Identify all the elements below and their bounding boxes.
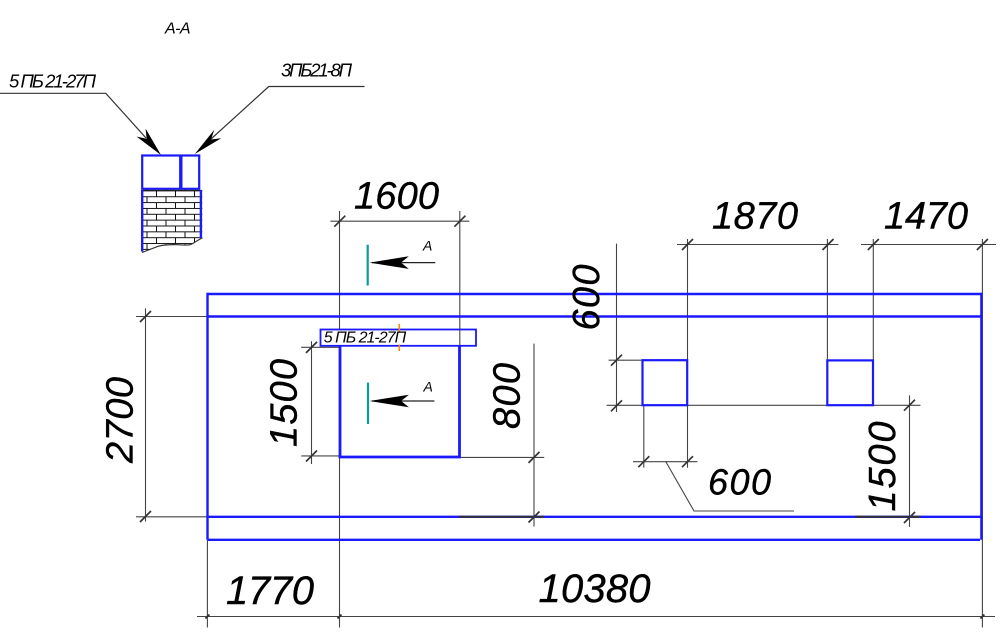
dimension 1870 [677, 239, 839, 360]
section mark A top [368, 238, 436, 286]
svg-text:А-А: А-А [164, 21, 191, 38]
svg-text:1770: 1770 [226, 569, 314, 613]
lintel section brick hatch [140, 188, 204, 254]
dimension 2700 [136, 308, 208, 522]
extension overlays (black over blue at y=517) [459, 516, 921, 518]
leader label 3ПБ21-8П [195, 59, 365, 154]
dimension 10380 bottom [539, 567, 651, 611]
lintel label box [321, 330, 477, 347]
svg-text:3ПБ21-8П: 3ПБ21-8П [281, 59, 353, 80]
leader label 5 ПБ 21-27П [0, 70, 161, 155]
extension line over label box [459, 330, 461, 345]
svg-text:5 ПБ 21-27П: 5 ПБ 21-27П [324, 330, 407, 347]
svg-text:800: 800 [487, 363, 529, 429]
svg-text:1500: 1500 [862, 422, 904, 512]
svg-text:1470: 1470 [884, 196, 968, 238]
wall outline [208, 293, 983, 540]
dimension 1470 [861, 239, 996, 628]
svg-text:600: 600 [566, 265, 608, 331]
pier square left [643, 360, 688, 405]
dimension text 600 left [566, 265, 608, 331]
dimension 1600 [330, 211, 469, 628]
lintel section detail boxes [142, 156, 199, 189]
pier square right [827, 360, 873, 405]
svg-text:1870: 1870 [712, 196, 798, 238]
svg-text:1600: 1600 [354, 176, 439, 218]
svg-text:5 ПБ 21-27П: 5 ПБ 21-27П [9, 70, 97, 91]
svg-text:А: А [423, 379, 433, 395]
svg-text:А: А [422, 238, 432, 254]
section mark A in opening [368, 379, 434, 424]
svg-text:1500: 1500 [264, 359, 306, 447]
svg-text:600: 600 [708, 462, 771, 503]
window opening [340, 346, 460, 457]
section title A-A [164, 21, 191, 38]
dimension 1500 left [301, 341, 341, 464]
svg-text:10380: 10380 [539, 567, 651, 611]
dimension 1770 bottom [197, 540, 995, 628]
dimension 800 [459, 344, 544, 527]
dimension 600 left vertical [607, 244, 921, 412]
dimension 600 bottom with leader [633, 405, 794, 511]
svg-text:2700: 2700 [100, 377, 142, 464]
insertion point marker (orange) [398, 324, 400, 351]
dimension 1500 right [904, 395, 915, 527]
